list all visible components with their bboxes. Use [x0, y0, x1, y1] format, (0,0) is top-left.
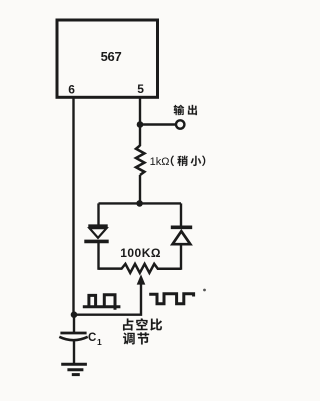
node: diode network top junction dot	[136, 200, 143, 207]
wire: loop top	[99, 202, 182, 204]
waveform icon: wide pulses (high duty)	[149, 294, 193, 304]
node: output junction dot	[137, 121, 144, 128]
wire: loop right upper	[180, 203, 182, 225]
svg-text:C: C	[88, 332, 96, 344]
waveform icon: narrow pulses (low duty)	[83, 295, 121, 310]
svg-text:5: 5	[137, 82, 144, 96]
label （稍小） (slightly small)	[171, 156, 206, 167]
svg-text:6: 6	[68, 83, 75, 97]
wire: junction down to capacitor	[73, 315, 75, 332]
stray scan speck	[203, 289, 206, 292]
wire: loop left lower	[97, 243, 99, 270]
label 占空比 (duty cycle)	[123, 318, 162, 330]
label 输出 (output)	[174, 105, 197, 115]
diode D1 (anode up, cathode down)	[84, 226, 108, 241]
potentiometer wiper arrow	[137, 274, 146, 284]
svg-text:1: 1	[97, 337, 102, 347]
wire: wiper down and left to rail	[74, 282, 142, 315]
wire: resistor to diode network top	[139, 175, 141, 203]
node: rail/wiper junction dot	[71, 311, 78, 318]
svg-text:1kΩ: 1kΩ	[150, 156, 170, 168]
diode D2 (cathode up, anode down)	[171, 227, 192, 244]
wire: junction to output terminal	[140, 123, 176, 125]
svg-text:567: 567	[101, 49, 122, 64]
potentiometer R2 100k zigzag (loop bottom)	[99, 264, 182, 273]
label 调节 (adjust)	[123, 332, 149, 344]
output terminal circle	[176, 120, 184, 128]
op-amp/IC U1 567 tone decoder box	[57, 20, 158, 97]
svg-text:100KΩ: 100KΩ	[120, 246, 161, 260]
wire: loop left upper	[97, 203, 99, 224]
wire: loop right lower	[180, 245, 182, 270]
ground symbol	[61, 364, 87, 374]
wire: cap to ground	[73, 341, 75, 364]
capacitor C1 top plate	[60, 332, 86, 335]
wire: pin 5 down to resistor R1	[139, 98, 141, 147]
wire: pin 6 left rail down to bottom junction	[72, 98, 74, 315]
capacitor C1 curved bottom plate	[59, 337, 87, 340]
resistor R1 1k zigzag	[136, 146, 144, 176]
